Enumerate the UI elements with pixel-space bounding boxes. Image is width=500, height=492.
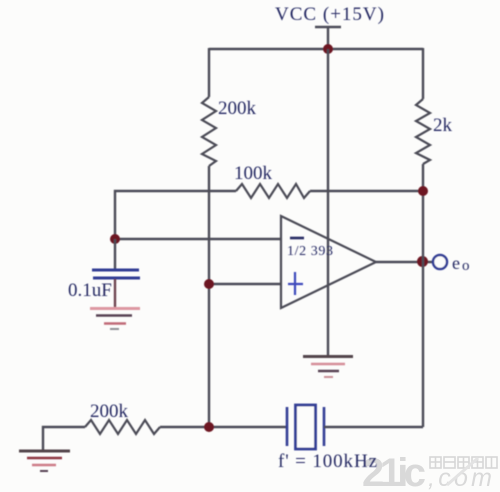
svg-text:0.1uF: 0.1uF bbox=[68, 280, 112, 301]
wire right rail lower bbox=[422, 164, 424, 427]
svg-text:200k: 200k bbox=[90, 401, 129, 422]
node non-inverting junction bbox=[204, 279, 214, 289]
wire left rail upper bbox=[208, 48, 210, 97]
ground (op-amp) bbox=[303, 357, 353, 378]
wire right rail upper bbox=[422, 48, 424, 99]
svg-text:,com: ,com bbox=[428, 464, 492, 492]
wire op-amp output bbox=[376, 261, 432, 263]
resistor R 200k (vertical) bbox=[202, 97, 216, 166]
node 100k/2k junction bbox=[418, 186, 428, 196]
svg-text:2k: 2k bbox=[433, 115, 453, 136]
svg-text:e: e bbox=[452, 253, 460, 273]
wire 100k right segment bbox=[310, 190, 423, 192]
resistor R 2k (vertical) bbox=[416, 99, 430, 164]
resistor R 100k (horizontal) bbox=[236, 184, 310, 198]
wire bottom left to ground bbox=[43, 427, 85, 450]
node inverting input junction bbox=[110, 234, 120, 244]
minus input symbol bbox=[290, 237, 304, 240]
crystal X1 body bbox=[296, 405, 316, 449]
wire VCC feed through op-amp to ground bbox=[327, 49, 329, 356]
svg-text:200k: 200k bbox=[218, 98, 257, 119]
wire capacitor bottom lead bbox=[114, 279, 116, 308]
ground (capacitor) bbox=[90, 309, 140, 330]
node bottom junction bbox=[204, 422, 214, 432]
wire bottom middle bbox=[160, 426, 287, 428]
wire non-inverting input bbox=[209, 283, 281, 285]
node VCC junction bbox=[323, 44, 333, 54]
wire inverting input bbox=[115, 238, 281, 240]
VCC power symbol bar bbox=[315, 26, 341, 28]
svg-text:1/2 393: 1/2 393 bbox=[287, 244, 333, 259]
wire capacitor top lead bbox=[114, 239, 116, 269]
wire top rail bbox=[209, 48, 423, 50]
watermark 21ic.com bbox=[362, 451, 497, 492]
svg-text:o: o bbox=[462, 258, 470, 274]
plus input symbol bbox=[288, 272, 303, 295]
node output junction bbox=[417, 256, 428, 267]
wire VCC stub bbox=[327, 27, 329, 49]
svg-text:100k: 100k bbox=[234, 163, 273, 184]
resistor R 200k bottom (horizontal) bbox=[85, 420, 160, 434]
wire left rail lower bbox=[208, 166, 210, 427]
crystal X1 right plate bbox=[323, 407, 326, 446]
svg-text:f' = 100kHz: f' = 100kHz bbox=[278, 451, 377, 472]
ground (bottom left) bbox=[19, 451, 70, 471]
output terminal circle bbox=[433, 255, 447, 269]
svg-text:VCC (+15V): VCC (+15V) bbox=[275, 4, 384, 25]
wire crystal to right rail bbox=[324, 426, 423, 428]
crystal X1 left plate bbox=[286, 407, 289, 446]
capacitor C 0.1uF plates bbox=[92, 269, 139, 272]
wire 100k left segment and corner down bbox=[115, 191, 236, 239]
op-amp U1 1/2 393 triangle bbox=[281, 216, 376, 308]
